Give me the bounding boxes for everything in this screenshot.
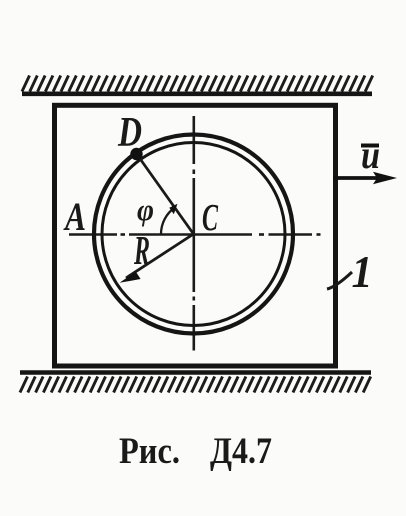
svg-text:D: D bbox=[117, 110, 142, 156]
radius line CD bbox=[137, 155, 194, 235]
radius arrow R bbox=[126, 234, 194, 278]
svg-text:u: u bbox=[361, 132, 380, 177]
ring inner circle bbox=[102, 143, 285, 326]
point D dot bbox=[130, 148, 142, 160]
ring outer circle bbox=[94, 135, 293, 334]
leader line for label 1 bbox=[327, 272, 352, 289]
bottom wall hatching bbox=[20, 377, 371, 393]
svg-text:A: A bbox=[63, 194, 86, 239]
svg-text:1: 1 bbox=[352, 247, 373, 297]
bottom wall line bbox=[20, 370, 371, 375]
top wall hatching bbox=[22, 76, 373, 92]
svg-text:Рис.: Рис. bbox=[119, 431, 180, 472]
velocity arrow u bbox=[333, 176, 379, 180]
svg-text:R: R bbox=[133, 227, 150, 273]
vertical centerline (dash-dot) bbox=[193, 116, 196, 351]
top wall line bbox=[22, 92, 372, 97]
square body outline bbox=[55, 105, 336, 366]
svg-text:C: C bbox=[202, 197, 218, 239]
angle arc phi with arrowhead bbox=[161, 208, 175, 235]
u overbar bbox=[361, 144, 379, 148]
svg-text:φ: φ bbox=[137, 192, 154, 227]
horizontal centerline (dash-dot) bbox=[69, 233, 321, 236]
svg-text:Д4.7: Д4.7 bbox=[210, 431, 272, 472]
